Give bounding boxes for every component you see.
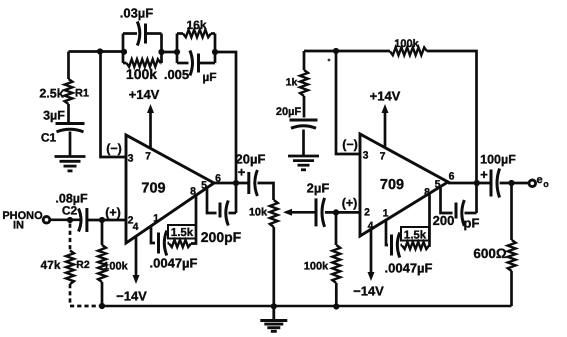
wire 100k fb to right vert <box>427 51 477 213</box>
svg-text:.0047µF: .0047µF <box>385 261 433 276</box>
wire 600ohm to rail <box>510 271 513 306</box>
node 600ohm tap <box>508 180 514 186</box>
wire R1 to C1 <box>67 104 70 122</box>
resistor 1k <box>300 70 308 96</box>
resistor 10k pot <box>270 200 278 227</box>
wire dashed R2 to rail <box>69 284 72 303</box>
resistor 100k bias U1 <box>98 245 106 282</box>
capacitor .0047µF U2 <box>390 235 393 256</box>
wire 20µF to ground <box>302 130 305 156</box>
svg-text:.005: .005 <box>164 67 189 82</box>
wire 2µF to (+) U2 <box>325 211 360 214</box>
wire R1 branch corner down <box>67 52 70 80</box>
svg-text:16k: 16k <box>186 18 206 32</box>
ground below 20µF bypass <box>288 155 319 158</box>
svg-text:7: 7 <box>145 151 151 163</box>
wire top U2 feedback <box>304 50 390 53</box>
-14V supply line U2 <box>370 229 373 275</box>
capacitor 200pF U2 <box>455 203 458 219</box>
resistor 100k feedback (bottom rail) <box>123 62 127 65</box>
node input R2 tap <box>67 217 73 223</box>
svg-text:600Ω: 600Ω <box>473 246 507 261</box>
wire (-) drop to pin3 U2 <box>336 51 360 154</box>
svg-text:1: 1 <box>153 213 159 225</box>
spot artifact <box>328 59 331 62</box>
box around 1.5k U2 <box>401 227 429 241</box>
svg-text:2: 2 <box>364 207 370 219</box>
node right of network2 <box>212 49 218 55</box>
op-amp U2 709 triangle <box>360 134 448 236</box>
svg-text:(−): (−) <box>106 142 122 156</box>
svg-text:+14V: +14V <box>370 89 401 104</box>
svg-text:IN: IN <box>13 220 24 232</box>
svg-text:100µF: 100µF <box>480 153 516 167</box>
pin1 stub U2 <box>386 220 388 245</box>
svg-text:.0047µF: .0047µF <box>150 256 198 271</box>
wire (+) node down <box>101 220 104 245</box>
resistor 1.5k U2 <box>402 242 429 249</box>
network1 box right edge <box>160 34 163 64</box>
op-amp U1 709 triangle <box>126 135 214 243</box>
svg-text:47k: 47k <box>40 258 60 272</box>
node U2 output <box>474 180 480 186</box>
svg-text:(+): (+) <box>105 206 121 220</box>
wire pot to rail <box>272 227 275 307</box>
ground below C1 <box>55 155 86 158</box>
capacitor 20µF output U1 <box>247 172 250 194</box>
wire U1 output <box>214 182 248 185</box>
svg-text:1.5k: 1.5k <box>404 230 427 242</box>
svg-text:2µF: 2µF <box>307 181 330 196</box>
node U1 output <box>233 180 239 186</box>
svg-text:R2: R2 <box>76 259 90 271</box>
network1 box left edge <box>122 34 125 64</box>
svg-text:−14V: −14V <box>353 284 384 299</box>
pin1 stub U1 <box>151 226 155 243</box>
wire 100k bias to rail <box>101 282 104 306</box>
capacitor 20µF U2 bypass <box>290 119 318 122</box>
terminal e_o <box>529 180 536 187</box>
svg-text:100k: 100k <box>103 261 128 273</box>
resistor 100k bias U2 <box>332 245 340 283</box>
wire U2 output <box>448 182 490 185</box>
svg-text:709: 709 <box>141 181 165 197</box>
capacitor 2µF <box>315 198 318 226</box>
svg-text:20µF: 20µF <box>236 152 266 167</box>
svg-text:R1: R1 <box>75 88 89 100</box>
svg-text:6: 6 <box>449 171 455 183</box>
svg-text:100k: 100k <box>394 38 419 50</box>
resistor 600Ω <box>508 240 516 271</box>
wire 1.5k to pin8 U1 <box>191 196 196 244</box>
svg-text:+: + <box>238 165 246 180</box>
svg-text:1k: 1k <box>286 77 298 89</box>
capacitor .005µF (bottom rail) <box>177 62 189 65</box>
wire 100k bias U2 to rail <box>335 283 338 307</box>
wire 100µF to terminal <box>500 182 529 185</box>
wire input to C2 <box>50 218 80 221</box>
svg-text:1: 1 <box>383 208 389 220</box>
capacitor C1 3uF <box>56 122 85 125</box>
bottom rail <box>102 305 512 308</box>
wire 1.5k to pin8 U2 <box>428 193 431 246</box>
svg-text:2.5k: 2.5k <box>39 87 63 101</box>
svg-text:7: 7 <box>380 151 386 163</box>
capacitor C2 .08µF <box>85 208 88 232</box>
svg-text:pF: pF <box>464 216 480 231</box>
wire top-left horizontal (R1 node to feedback network) <box>69 50 124 53</box>
svg-text:(−): (−) <box>342 138 358 152</box>
terminal PHONO IN <box>43 217 50 224</box>
capacitor .0047µF U1 <box>157 233 160 254</box>
resistor R1 2.5k zigzag <box>65 79 73 104</box>
svg-text:200: 200 <box>433 213 455 228</box>
svg-text:3µF: 3µF <box>43 109 65 123</box>
capacitor .03µF (top rail) <box>123 32 137 35</box>
svg-text:e: e <box>536 174 542 186</box>
wire top corner to 1k <box>303 51 306 70</box>
svg-text:.03µF: .03µF <box>120 6 154 21</box>
network2 box right edge <box>214 34 217 64</box>
wire 1k to 20µF <box>303 96 306 118</box>
svg-text:1.5k: 1.5k <box>171 227 194 239</box>
svg-text:o: o <box>543 179 549 189</box>
wire C2 to (+) input <box>87 219 126 222</box>
wire (-) input drop from top node <box>101 52 127 158</box>
wire cap to 1.5k U1 <box>168 242 170 245</box>
wire (+) U2 node down <box>335 212 338 245</box>
node junction top-left at x=100 <box>97 48 103 54</box>
wire 200pF to output vert U1 <box>229 212 237 215</box>
svg-text:10k: 10k <box>249 207 268 219</box>
node (+) input U2 <box>333 209 339 215</box>
node left of network1 <box>121 49 127 55</box>
resistor R2 47k zigzag <box>66 251 74 285</box>
+14V supply line U2 <box>384 109 387 148</box>
node rail at 100k U2 <box>333 303 339 309</box>
node right of network1 <box>158 49 164 55</box>
box around 1.5k U1 <box>168 225 196 239</box>
svg-text:3: 3 <box>363 150 369 162</box>
svg-text:−14V: −14V <box>116 289 147 304</box>
wire 20µF to pot <box>258 183 274 200</box>
pin5 stub U1 <box>207 189 217 213</box>
svg-text:3: 3 <box>128 153 134 165</box>
resistor 100k feedback U2 <box>390 47 427 55</box>
node (-) drop U2 <box>333 48 339 54</box>
wire dashed input to R2 <box>69 224 72 251</box>
svg-text:µF: µF <box>202 70 216 84</box>
wire network2 to output node <box>215 52 236 213</box>
svg-text:709: 709 <box>380 177 404 193</box>
wire cap to 1.5k U2 <box>401 244 403 247</box>
wire 200pF to output vert U2 <box>465 212 477 215</box>
network2 box left edge <box>176 34 179 64</box>
svg-text:C1: C1 <box>41 131 57 145</box>
svg-text:20µF: 20µF <box>276 106 302 118</box>
pot wiper arrow <box>290 211 315 214</box>
wire 600ohm top <box>510 183 513 240</box>
wire C1 to ground <box>69 132 72 156</box>
svg-text:4: 4 <box>133 221 139 233</box>
node rail at 100k U1 <box>99 303 105 309</box>
node left of network2 <box>174 49 180 55</box>
svg-text:100k: 100k <box>126 66 157 82</box>
svg-text:+: + <box>480 167 488 182</box>
main ground <box>272 306 275 320</box>
svg-text:+14V: +14V <box>129 87 160 102</box>
node (+) input U1 <box>99 217 105 223</box>
resistor 16k (top rail) <box>177 32 183 35</box>
resistor 1.5k U1 <box>169 240 191 247</box>
capacitor 100µF output <box>490 170 493 197</box>
wire between networks <box>162 51 178 54</box>
+14V supply line U1 <box>149 109 152 149</box>
pin5 stub U2 <box>441 187 453 213</box>
-14V supply line U1 <box>135 236 138 278</box>
svg-text:100k: 100k <box>304 261 329 273</box>
capacitor 200pF U1 <box>219 203 222 218</box>
svg-text:(+): (+) <box>342 196 358 210</box>
svg-text:200pF: 200pF <box>201 229 242 245</box>
svg-text:C2: C2 <box>62 204 78 218</box>
node rail at pot <box>271 303 277 309</box>
